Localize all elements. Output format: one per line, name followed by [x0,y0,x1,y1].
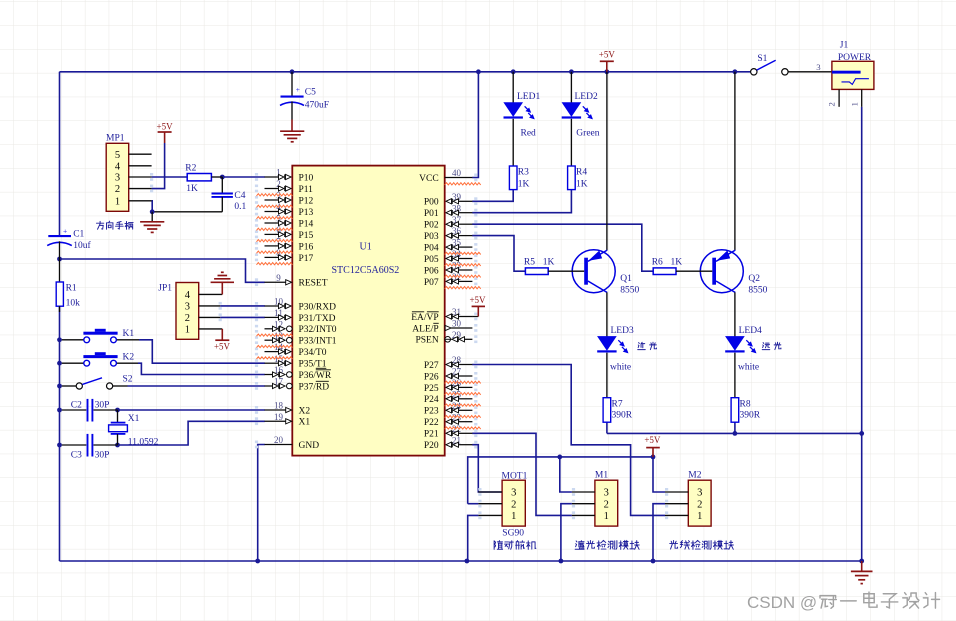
svg-text:4: 4 [115,161,121,172]
svg-text:2: 2 [697,499,702,510]
svg-text:white: white [610,363,631,373]
svg-text:POWER: POWER [838,53,872,63]
LED LED4 white 远光 [726,337,744,350]
svg-text:23: 23 [452,412,462,422]
ground above JP1 [221,282,223,294]
wire +5V branch to M1 pin3 [560,457,572,492]
svg-text:20: 20 [274,435,284,445]
svg-text:VCC: VCC [419,174,439,184]
pushbutton K2 [62,362,84,364]
svg-text:P25: P25 [424,384,439,394]
svg-text:390R: 390R [740,411,761,421]
svg-text:19: 19 [274,412,284,422]
svg-text:P02: P02 [424,221,439,231]
svg-text:P26: P26 [424,372,439,382]
svg-text:1: 1 [604,511,609,522]
wire Q1 collector rail to R7 top [606,422,608,433]
wire MP1 pin1 to ground node [151,201,154,212]
power +5V at MP1 [158,131,172,133]
svg-text:+5V: +5V [214,341,231,351]
svg-text:3: 3 [185,302,190,313]
svg-text:R5: R5 [524,257,535,267]
wire P20 to MOT1 pin3 [472,445,502,492]
wire left rail R1 to switches and caps [59,307,61,561]
svg-text:1K: 1K [543,257,555,267]
capacitor C2 30P [62,409,87,411]
svg-text:+5V: +5V [644,435,661,445]
junction dot R2/C4 node [220,175,225,180]
svg-text:MP1: MP1 [106,133,125,143]
label 方向手柄 [96,221,103,229]
svg-text:0.1: 0.1 [234,202,246,212]
svg-text:18: 18 [274,401,284,411]
wire +5V branch to M2 pin3 [653,457,665,492]
capacitor C1 10uf polarized [48,235,71,237]
ground under MP1 [151,212,153,222]
wire chip GND pin20 to ground rail [258,445,265,562]
svg-text:3: 3 [604,488,609,499]
label 随动舵机 [494,541,502,550]
svg-text:P21: P21 [424,430,439,440]
svg-text:C2: C2 [71,400,82,410]
resistor R7 390R [603,398,611,423]
wire M1 pin2 to ground rail [561,504,572,561]
svg-text:470uF: 470uF [305,101,329,111]
svg-text:LED1: LED1 [517,92,540,102]
svg-text:Q1: Q1 [620,274,632,284]
resistor R2 1K [187,174,211,181]
wire C3/X1 to X1 pin19 [118,421,265,445]
svg-text:3: 3 [115,173,120,184]
wire MP1 pin3 to R2 [152,176,188,178]
resistor R1 10k [59,259,61,282]
svg-text:C1: C1 [73,230,84,240]
svg-text:X1: X1 [128,414,140,424]
connector JP1 [176,283,199,340]
no-connect squiggles left pins [257,194,293,196]
svg-text:MOT1: MOT1 [502,471,528,481]
svg-text:390R: 390R [612,411,633,421]
power +5V below JP1 [221,329,223,340]
svg-text:+: + [63,226,67,235]
svg-text:P27: P27 [424,361,439,371]
wire P27 to M2 pin1 [472,365,665,516]
svg-text:30P: 30P [95,451,110,461]
svg-text:34: 34 [452,249,462,259]
svg-text:P04: P04 [424,244,439,254]
svg-text:40: 40 [452,168,462,178]
svg-text:10uf: 10uf [73,240,91,251]
svg-text:M2: M2 [688,470,701,480]
LED LED2 Green [570,72,572,103]
svg-text:P37/RD: P37/RD [299,382,330,392]
wire P21 to M1 pin1 [472,433,572,515]
svg-text:SG90: SG90 [502,529,524,539]
junction dots bottom ground rail [255,559,260,564]
wire MP1 pin2 to +5V [152,143,165,189]
svg-text:GND: GND [299,441,320,451]
wire S1 to J1 pin3 [788,71,832,73]
svg-text:R7: R7 [612,399,623,409]
svg-text:P05: P05 [424,255,439,265]
wire +5V top rail [60,71,751,73]
M1 pin leads [572,491,595,493]
wire R2/C4 junction to P10 pin1 [222,176,264,178]
JP1 pin leads [199,293,223,295]
ground under C5 [291,120,293,132]
svg-text:1K: 1K [186,184,198,194]
no-connect squiggles right pins [445,183,481,185]
svg-text:P15: P15 [299,231,314,241]
label 远光 [762,343,770,350]
svg-text:1: 1 [115,196,120,207]
svg-text:LED2: LED2 [575,92,598,102]
svg-text:1K: 1K [671,257,683,267]
svg-text:2: 2 [115,184,120,195]
connector J1 POWER [832,61,874,89]
svg-text:U1: U1 [360,241,372,252]
svg-text:24: 24 [452,401,462,411]
svg-text:P30/RXD: P30/RXD [299,302,337,312]
connector M1 [595,480,618,526]
svg-text:P22: P22 [424,418,439,428]
svg-text:C3: C3 [71,451,82,461]
svg-text:P06: P06 [424,266,439,276]
svg-text:35: 35 [452,238,462,248]
svg-text:LED4: LED4 [739,326,762,336]
transistor Q2 8550 [734,72,736,250]
wire K2 to P36/WR [138,363,265,374]
wire JP1 pin2 to P31/TXD [220,316,265,318]
resistor R8 390R [731,398,739,423]
svg-text:8550: 8550 [748,286,767,296]
svg-text:CSDN @: CSDN @ [747,593,817,612]
wire P00 to R3 [472,190,513,202]
resistor R5 1K [525,268,548,275]
connector MOT1 SG90 servo [502,480,525,526]
resistor R6 1K [653,268,676,275]
svg-text:P23: P23 [424,407,439,417]
svg-text:S2: S2 [123,374,133,384]
capacitor C5 470uF polarized [291,72,293,96]
svg-text:RESET: RESET [299,279,328,289]
svg-text:P16: P16 [299,242,314,252]
wire MOT1 pin1 to ground rail [468,515,479,561]
svg-text:J1: J1 [840,41,849,51]
svg-text:36: 36 [452,226,462,236]
wire ground node to C4 bottom [152,211,222,213]
svg-text:PSEN: PSEN [415,336,438,346]
svg-text:P13: P13 [299,208,314,218]
svg-text:+5V: +5V [599,49,616,59]
svg-text:10k: 10k [66,298,81,308]
svg-text:X1: X1 [299,418,311,428]
svg-text:K2: K2 [123,353,135,363]
wire P03 to R5 (Q1 base) [472,236,525,272]
power +5V at EA/VP pin31 [477,306,479,316]
wire S2 to P37/RD [128,385,265,387]
junction dots LED ground rail [733,431,738,436]
svg-text:1K: 1K [518,180,530,190]
wire VCC pin40 to +5V rail [472,72,478,178]
svg-text:33: 33 [452,261,462,271]
svg-text:2: 2 [604,499,609,510]
svg-text:11.0592: 11.0592 [128,437,159,447]
svg-text:P11: P11 [299,185,314,195]
svg-text:ALE/P: ALE/P [412,324,438,334]
svg-text:C4: C4 [234,191,245,201]
resistor R3 1K [509,166,517,190]
svg-text:3: 3 [697,488,702,499]
svg-text:P20: P20 [424,441,439,451]
pushbutton K1 [62,339,84,341]
svg-text:M1: M1 [595,470,608,480]
label 光线检测模块 [670,541,678,550]
svg-text:31: 31 [452,307,461,317]
wire JP1 pin3 to P30/RXD [220,305,265,307]
svg-text:C5: C5 [305,88,316,98]
svg-text:EA/VP: EA/VP [411,313,438,323]
svg-text:P00: P00 [424,198,439,208]
connector MP1 方向手柄 [106,143,129,211]
svg-text:R3: R3 [518,168,529,178]
M2 pin leads [665,491,688,493]
J1 pin 2 [838,89,840,106]
wire M2 pin2 to ground rail [653,504,665,561]
svg-text:2: 2 [827,102,837,106]
LED LED1 Red [512,72,514,103]
junction dots on left rail [57,257,62,262]
capacitor C4 0.1 [221,177,223,193]
svg-text:4: 4 [185,290,191,301]
svg-text:30P: 30P [95,400,110,410]
svg-text:P10: P10 [299,173,314,183]
svg-text:P01: P01 [424,209,439,219]
svg-text:1: 1 [185,325,190,336]
svg-text:P14: P14 [299,219,314,229]
svg-text:21: 21 [452,435,461,445]
svg-text:1: 1 [849,102,859,106]
svg-text:2: 2 [511,499,516,510]
svg-text:P07: P07 [424,278,439,288]
ground bottom right [861,561,863,571]
svg-text:LED3: LED3 [611,326,634,336]
switch S1 [751,69,757,75]
wire J1 pin1 to ground vertical [861,107,863,561]
svg-text:P36/WR: P36/WR [299,371,332,381]
svg-text:1: 1 [697,511,702,522]
svg-text:white: white [738,363,759,373]
junction dots on +5V rail [290,69,295,74]
svg-text:2: 2 [185,313,190,324]
label 遮光检测模块 [575,541,584,550]
svg-text:S1: S1 [757,54,767,64]
svg-text:P12: P12 [299,196,314,206]
svg-text:Q2: Q2 [748,274,760,284]
svg-text:P17: P17 [299,254,314,264]
svg-text:28: 28 [452,355,462,365]
wire RESET horizontal from C1 junction [60,259,265,282]
svg-text:R8: R8 [740,399,751,409]
svg-text:P32/INT0: P32/INT0 [299,325,337,335]
svg-text:R4: R4 [576,168,587,178]
MOT1 pin leads [478,491,502,493]
svg-text:37: 37 [452,215,462,225]
svg-text:+5V: +5V [469,295,486,305]
svg-text:R1: R1 [66,284,77,294]
resistor R4 1K [568,166,576,190]
wire K1 to P35/T1 [139,340,265,363]
svg-text:P03: P03 [424,232,439,242]
svg-text:1K: 1K [576,180,588,190]
svg-text:30: 30 [452,319,462,329]
svg-text:X2: X2 [299,406,311,416]
svg-text:26: 26 [452,378,462,388]
wire LED rail R7/R8 bottom to ground [607,432,862,434]
junction dots +5V module wire [557,455,562,460]
switch S2 [62,385,76,387]
svg-text:9: 9 [276,273,281,283]
svg-text:P31/TXD: P31/TXD [299,314,336,324]
transistor Q1 8550 [606,72,608,250]
crystal X1 11.0592 [117,410,119,422]
svg-text:K1: K1 [123,329,135,339]
svg-text:P33/INT1: P33/INT1 [299,337,337,347]
wire P02 to R6 (Q2 base) [472,224,653,271]
junction dots crystal node [115,408,120,413]
svg-text:R6: R6 [652,257,663,267]
junction dot MP1 ground node [150,209,155,214]
svg-text:Green: Green [576,129,599,139]
svg-text:JP1: JP1 [158,284,172,294]
svg-text:1: 1 [511,511,516,522]
svg-text:STC12C5A60S2: STC12C5A60S2 [332,265,400,276]
svg-text:3: 3 [511,488,516,499]
wire +5V to MOT1 pin2 [468,503,479,505]
capacitor C3 30P [62,444,87,446]
svg-text:+: + [296,85,300,94]
svg-text:Red: Red [521,129,537,139]
label 近光 [638,342,646,349]
wire bottom ground rail [60,560,862,562]
power +5V at module supply wire [652,448,654,457]
svg-text:5: 5 [115,150,120,161]
MP1 pin leads [129,153,152,155]
svg-text:39: 39 [452,192,462,202]
svg-text:25: 25 [452,389,462,399]
LED LED3 white 近光 [598,337,616,350]
svg-text:R2: R2 [185,163,196,173]
wire C2/X1 to X2 pin18 [118,409,265,411]
connector M2 [688,480,711,526]
svg-text:+5V: +5V [157,121,174,131]
svg-text:27: 27 [452,367,462,377]
wire Q2 collector rail to R8 top [734,422,736,433]
wire EA/VP pin31 stub to +5V [472,316,478,318]
wire P01 to R4 [472,190,571,213]
power +5V on top rail [600,60,614,62]
svg-text:38: 38 [452,203,462,213]
J1 pin 1 [861,89,863,106]
svg-text:P34/T0: P34/T0 [299,348,327,358]
wire left rail vertical (C1/R1 branch) [59,72,61,236]
svg-text:3: 3 [816,62,821,72]
wire +5V distribution to modules [468,457,653,504]
svg-text:8550: 8550 [620,286,639,296]
svg-text:P24: P24 [424,395,439,405]
IC U1 STC12C5A60S2 body [292,166,444,456]
